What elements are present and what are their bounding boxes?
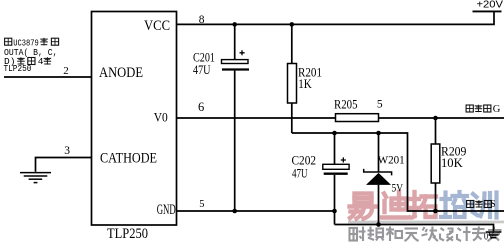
wire pin3 cathode to ground — [36, 158, 92, 172]
svg-text:47U: 47U — [193, 62, 211, 77]
svg-text:2: 2 — [63, 65, 69, 77]
optocoupler U TLP250 body — [92, 12, 177, 226]
培 — [441, 192, 467, 217]
svg-text:W201: W201 — [378, 154, 405, 166]
svg-text:6: 6 — [198, 100, 204, 114]
svg-text:TLP250: TLP250 — [107, 226, 148, 242]
svg-text:CATHODE: CATHODE — [100, 151, 157, 167]
wire C201 branch — [234, 24, 236, 211]
svg-text:R205: R205 — [334, 96, 358, 111]
zener diode W201 — [364, 169, 392, 185]
capacitor C202 — [323, 157, 349, 173]
ground (left, cathode) — [20, 173, 51, 183]
专 — [472, 227, 485, 241]
svg-text:TLP250: TLP250 — [4, 63, 32, 74]
resistor R201 — [288, 64, 297, 104]
terminal +20V — [473, 10, 502, 12]
line3: D）需要4组 — [17, 57, 51, 64]
svg-text:47U: 47U — [292, 166, 308, 181]
net label 接源极S — [467, 200, 492, 207]
设 — [440, 228, 454, 241]
频 — [368, 227, 384, 241]
svg-text:4: 4 — [38, 56, 44, 67]
svg-text:ANODE: ANODE — [99, 65, 143, 81]
resistor R205 — [336, 114, 379, 122]
junction R201-VCC — [290, 22, 295, 27]
家 — [488, 227, 501, 242]
wire pin2 anode input — [4, 76, 92, 78]
capacitor C201 — [222, 50, 250, 69]
svg-text:5: 5 — [377, 98, 383, 110]
svg-text:+20V: +20V — [477, 0, 504, 11]
计 — [457, 227, 471, 242]
svg-text:1K: 1K — [298, 76, 312, 91]
junction C201-VCC — [232, 22, 237, 27]
watermark logo 易迪拓培训 — [350, 192, 497, 219]
line1: 接 UC3879 输出 — [5, 38, 12, 45]
watermark underline bar — [348, 221, 504, 224]
junction C202-GND — [332, 209, 337, 214]
射 — [350, 227, 366, 242]
junction R209-source — [433, 209, 438, 214]
svg-text:8: 8 — [199, 14, 205, 26]
和 — [386, 227, 402, 242]
svg-text:G: G — [493, 104, 501, 115]
wire V0 net pin6 to gate — [177, 117, 504, 119]
线 — [422, 227, 439, 242]
ground (right, 0V) — [486, 232, 502, 238]
annotation text block top-left — [5, 38, 59, 45]
易 — [350, 194, 376, 219]
迪 — [382, 192, 407, 218]
junction R209-gate — [433, 116, 438, 121]
svg-text:5: 5 — [199, 199, 204, 210]
svg-text:3: 3 — [64, 145, 70, 157]
wire R201 branch — [291, 24, 293, 133]
wire bias net 133 — [292, 133, 504, 211]
wire W201 branch — [378, 133, 380, 225]
net label 接栅极G — [466, 105, 491, 112]
svg-text:VCC: VCC — [144, 18, 170, 34]
wire bottom 0V rail — [335, 225, 494, 232]
wire C202 branch — [334, 133, 336, 225]
junction C202-bias — [332, 131, 337, 136]
wire VCC net pin8 to +20V — [177, 11, 495, 24]
wire GND pin5 — [177, 210, 335, 212]
wire R209 branch — [435, 118, 437, 211]
junction W201-0V — [376, 222, 381, 227]
resistor R209 — [431, 144, 440, 183]
junction C201-GND — [232, 209, 237, 214]
训 — [473, 193, 497, 218]
svg-text:V0: V0 — [154, 111, 168, 125]
junction W201-bias — [376, 131, 381, 136]
天 — [405, 229, 419, 242]
拓 — [411, 192, 437, 218]
watermark slogan 射频和天线设计专家 — [350, 227, 501, 242]
svg-text:GND: GND — [157, 202, 176, 218]
svg-text:10K: 10K — [441, 155, 463, 170]
